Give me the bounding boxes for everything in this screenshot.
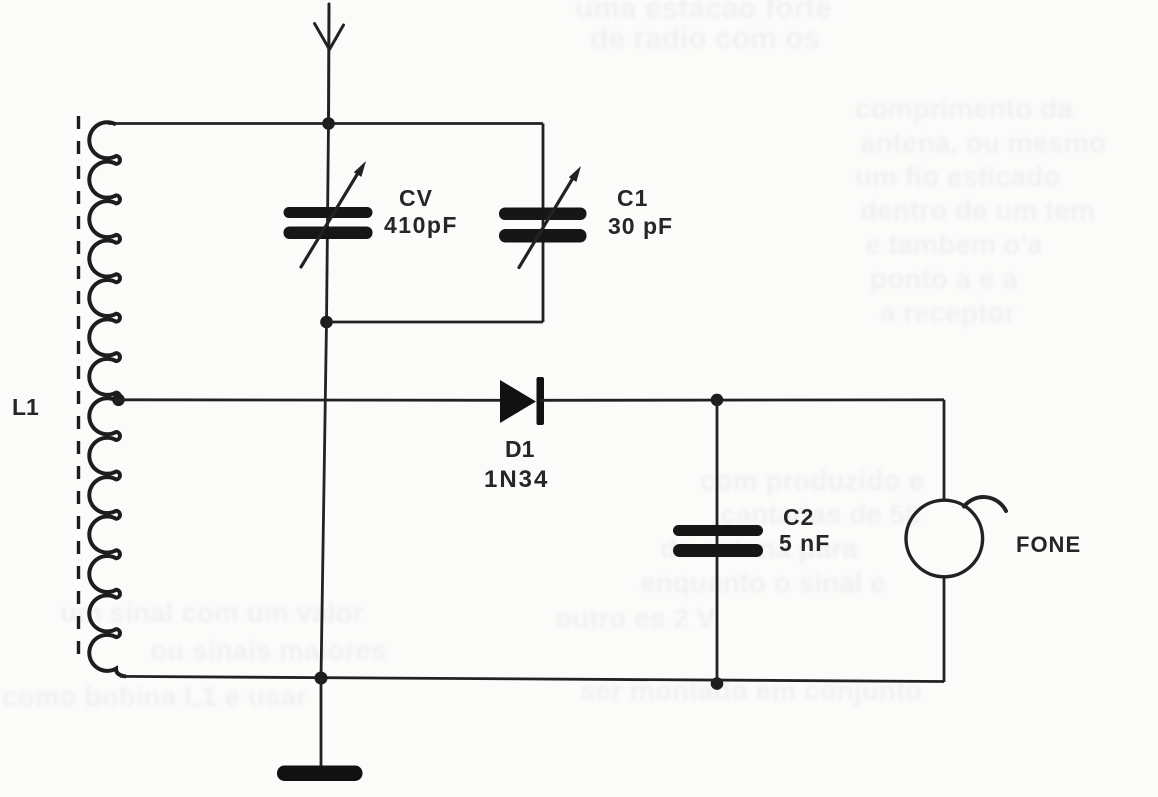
svg-text:um fio esticado: um fio esticado	[855, 161, 1060, 192]
earphone FONE	[906, 497, 1006, 577]
wire main vertical through (no connection crossing)	[321, 322, 327, 678]
label D1 1N34	[484, 436, 549, 493]
wire bottom horizontal	[120, 676, 944, 681]
svg-text:C2: C2	[783, 504, 814, 530]
svg-text:um sinal com um valor: um sinal com um valor	[60, 597, 364, 628]
wire ground stem	[320, 678, 323, 766]
node CV bottom junction	[320, 316, 333, 329]
capacitor C1 (variable, 30pF)	[499, 166, 587, 268]
antenna	[315, 4, 344, 124]
node ground junction	[315, 672, 328, 685]
ground	[277, 766, 363, 782]
svg-text:CV: CV	[399, 185, 433, 211]
svg-text:e tambem o'a: e tambem o'a	[865, 229, 1043, 260]
diode D1 1N34	[500, 377, 544, 425]
node C2 top junction	[711, 394, 724, 407]
svg-text:antena, ou mesmo: antena, ou mesmo	[860, 127, 1106, 158]
svg-text:ou sinais maiores: ou sinais maiores	[150, 635, 387, 666]
label C2 5nF	[779, 504, 830, 556]
svg-text:1N34: 1N34	[484, 466, 549, 493]
node antenna junction	[322, 117, 335, 130]
svg-text:como bobina L1 e usar: como bobina L1 e usar	[2, 681, 307, 712]
wire right vertical top	[943, 400, 946, 502]
wire detector horizontal right	[540, 398, 944, 401]
svg-text:dentro de um tem: dentro de um tem	[860, 195, 1095, 226]
svg-text:L1: L1	[12, 394, 39, 420]
svg-text:C1: C1	[617, 185, 648, 211]
svg-text:com produzido e: com produzido e	[700, 465, 924, 496]
label CV 410pF	[384, 185, 458, 238]
svg-text:30 pF: 30 pF	[608, 213, 673, 239]
svg-text:comprimento da: comprimento da	[855, 93, 1073, 124]
svg-text:a receptor: a receptor	[880, 297, 1015, 328]
svg-text:ponto a e a: ponto a e a	[870, 263, 1018, 294]
wire C1 branch vertical	[542, 124, 545, 323]
capacitor C2 5nF	[673, 525, 763, 557]
node coil tap	[112, 394, 125, 407]
wire top horizontal	[108, 122, 543, 125]
svg-text:FONE: FONE	[1016, 532, 1081, 557]
capacitor CV (variable, 410pF)	[284, 161, 373, 267]
svg-text:enquanto o sinal e: enquanto o sinal e	[640, 567, 886, 598]
svg-text:D1: D1	[505, 436, 535, 462]
inductor L1	[79, 116, 127, 676]
wire C2 vertical	[716, 400, 719, 684]
svg-text:outro es 2 V: outro es 2 V	[555, 603, 716, 634]
svg-text:de radio com os: de radio com os	[590, 22, 820, 55]
svg-text:410pF: 410pF	[384, 212, 458, 238]
svg-text:5 nF: 5 nF	[779, 530, 830, 556]
label C1 30pF	[608, 185, 673, 239]
wire inner bottom horizontal	[327, 321, 544, 324]
wire right vertical bottom	[943, 576, 946, 683]
wire detector horizontal left	[116, 398, 505, 401]
node C2 bottom junction	[711, 677, 724, 690]
wire CV branch vertical	[327, 124, 329, 323]
